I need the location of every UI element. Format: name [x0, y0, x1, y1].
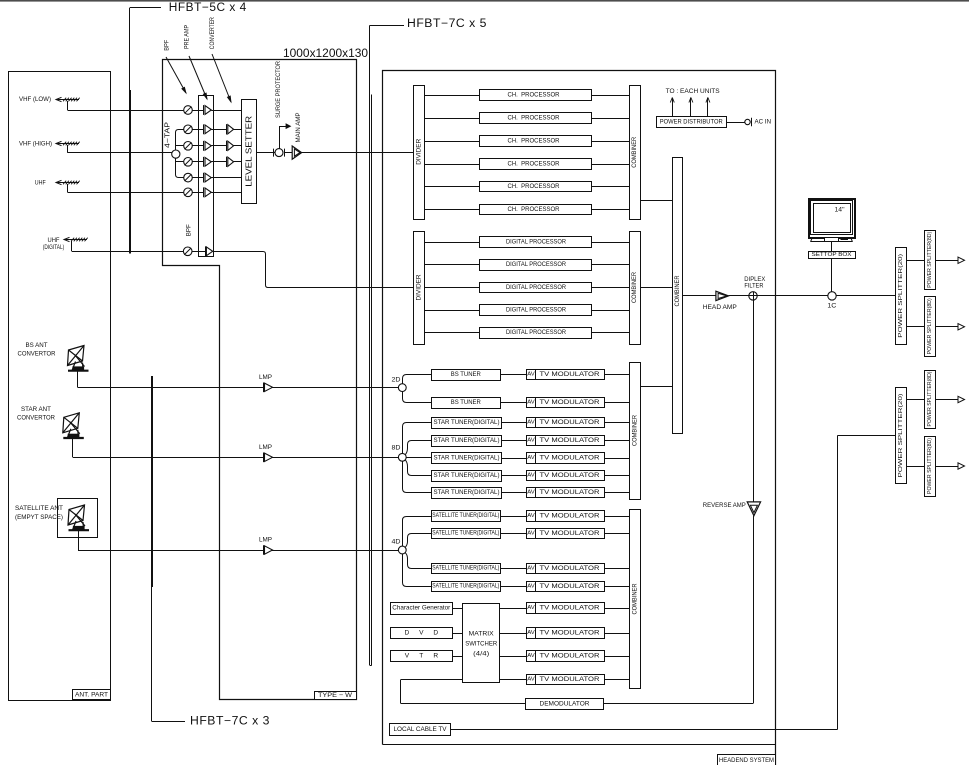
svg-text:COMBINER: COMBINER [674, 275, 681, 306]
svg-text:MATRIX: MATRIX [469, 631, 495, 638]
svg-text:UHF: UHF [35, 180, 46, 187]
svg-text:Character Generator: Character Generator [392, 605, 450, 612]
svg-text:TV MODULATOR: TV MODULATOR [540, 513, 601, 520]
svg-text:LMP: LMP [259, 444, 272, 451]
svg-text:HEAD AMP: HEAD AMP [703, 304, 737, 311]
svg-text:STAR TUNER(DIGITAL): STAR TUNER(DIGITAL) [434, 455, 500, 462]
svg-text:DIVIDER: DIVIDER [416, 138, 423, 165]
svg-text:(EMPYT SPACE): (EMPYT SPACE) [15, 514, 63, 521]
svg-text:POWER SPLITTER(8D): POWER SPLITTER(8D) [927, 298, 933, 354]
svg-text:4D: 4D [392, 538, 401, 545]
svg-text:TV MODULATOR: TV MODULATOR [540, 455, 601, 462]
svg-text:TV MODULATOR: TV MODULATOR [540, 583, 601, 590]
svg-text:TYPE − W: TYPE − W [318, 692, 352, 699]
svg-text:POWER SPLITTER(8D): POWER SPLITTER(8D) [927, 438, 933, 494]
svg-text:CH. PROCESSOR: CH. PROCESSOR [508, 92, 561, 99]
svg-text:STAR TUNER(DIGITAL): STAR TUNER(DIGITAL) [434, 437, 500, 444]
svg-text:REVERSE AMP: REVERSE AMP [703, 502, 746, 509]
svg-text:CH. PROCESSOR: CH. PROCESSOR [508, 138, 561, 145]
svg-text:AV: AV [527, 531, 535, 537]
svg-text:POWER SPLITTER(20): POWER SPLITTER(20) [898, 254, 904, 338]
svg-text:TV MODULATOR: TV MODULATOR [540, 472, 601, 479]
svg-text:CONVERTER: CONVERTER [209, 17, 216, 49]
svg-text:VHF (HIGH): VHF (HIGH) [19, 141, 52, 148]
svg-text:HFBT−7C x 5: HFBT−7C x 5 [407, 18, 487, 30]
svg-text:BS ANT: BS ANT [26, 342, 48, 349]
svg-text:AV: AV [527, 473, 535, 479]
svg-text:SWITCHER: SWITCHER [465, 641, 497, 648]
svg-text:POWER SPLITTER(8D): POWER SPLITTER(8D) [927, 231, 933, 287]
svg-text:8D: 8D [392, 445, 401, 452]
svg-text:TV MODULATOR: TV MODULATOR [540, 371, 601, 378]
svg-text:DIVIDER: DIVIDER [416, 274, 423, 301]
svg-text:STAR TUNER(DIGITAL): STAR TUNER(DIGITAL) [434, 489, 500, 496]
svg-text:1000x1200x130: 1000x1200x130 [283, 46, 368, 60]
svg-text:CH. PROCESSOR: CH. PROCESSOR [508, 206, 561, 213]
svg-text:TV MODULATOR: TV MODULATOR [540, 653, 601, 660]
svg-text:T: T [419, 653, 423, 660]
svg-text:AV: AV [527, 455, 535, 461]
svg-text:D: D [433, 630, 438, 637]
svg-text:BS TUNER: BS TUNER [451, 399, 481, 406]
svg-text:LOCAL CABLE TV: LOCAL CABLE TV [394, 726, 448, 733]
svg-text:DEMODULATOR: DEMODULATOR [540, 701, 591, 708]
svg-text:AV: AV [527, 566, 535, 572]
svg-text:V: V [419, 630, 424, 637]
svg-text:POWER SPLITTER(20): POWER SPLITTER(20) [898, 393, 904, 477]
svg-text:COMBINER: COMBINER [632, 415, 639, 446]
svg-text:SATELLITE TUNER(DIGITAL): SATELLITE TUNER(DIGITAL) [432, 584, 499, 590]
svg-text:2D: 2D [392, 376, 401, 383]
svg-text:POWER SPLITTER(8D): POWER SPLITTER(8D) [927, 371, 933, 426]
svg-text:ANT. PART: ANT. PART [75, 692, 108, 699]
svg-text:TV MODULATOR: TV MODULATOR [540, 530, 601, 537]
svg-text:AV: AV [527, 400, 535, 406]
svg-text:AV: AV [527, 372, 535, 378]
svg-text:TV MODULATOR: TV MODULATOR [540, 489, 601, 496]
svg-text:STAR TUNER(DIGITAL): STAR TUNER(DIGITAL) [434, 419, 500, 426]
svg-text:AV: AV [527, 513, 535, 519]
svg-text:AV: AV [527, 420, 535, 426]
svg-text:STAR TUNER(DIGITAL): STAR TUNER(DIGITAL) [434, 472, 500, 479]
svg-text:HFBT−7C x 3: HFBT−7C x 3 [190, 716, 270, 728]
svg-text:DIGITAL PROCESSOR: DIGITAL PROCESSOR [506, 239, 566, 246]
svg-text:CONVERTOR: CONVERTOR [17, 415, 55, 422]
svg-text:TV MODULATOR: TV MODULATOR [540, 565, 601, 572]
svg-text:CH. PROCESSOR: CH. PROCESSOR [508, 161, 561, 168]
svg-text:TO : EACH UNITS: TO : EACH UNITS [666, 88, 720, 95]
svg-text:CH. PROCESSOR: CH. PROCESSOR [508, 115, 561, 122]
svg-text:BS TUNER: BS TUNER [451, 371, 481, 378]
svg-text:TV MODULATOR: TV MODULATOR [540, 437, 601, 444]
svg-text:COMBINER: COMBINER [631, 136, 638, 167]
svg-text:MAIN AMP: MAIN AMP [295, 113, 302, 143]
svg-text:PRE AMP: PRE AMP [184, 25, 191, 49]
svg-text:4−TAP: 4−TAP [165, 122, 172, 148]
svg-text:SURGE PROTECTOR: SURGE PROTECTOR [275, 61, 282, 118]
svg-text:POWER DISTRIBUTOR: POWER DISTRIBUTOR [660, 119, 724, 126]
svg-text:FILTER: FILTER [744, 283, 763, 290]
svg-text:AV: AV [527, 630, 535, 636]
svg-text:1C: 1C [827, 303, 836, 310]
svg-text:SETTOP BOX: SETTOP BOX [812, 252, 852, 258]
svg-text:AV: AV [527, 653, 535, 659]
svg-text:VHF (LOW): VHF (LOW) [19, 96, 51, 103]
svg-text:LMP: LMP [259, 537, 272, 544]
svg-text:LMP: LMP [259, 374, 272, 381]
svg-text:TV MODULATOR: TV MODULATOR [540, 630, 601, 637]
svg-text:SATELLITE TUNER(DIGITAL): SATELLITE TUNER(DIGITAL) [432, 566, 499, 572]
svg-text:COMBINER: COMBINER [631, 272, 638, 303]
svg-text:V: V [405, 653, 410, 660]
svg-text:AV: AV [527, 584, 535, 590]
svg-text:DIGITAL PROCESSOR: DIGITAL PROCESSOR [506, 307, 566, 314]
svg-text:SATELLITE ANT: SATELLITE ANT [15, 505, 63, 512]
svg-text:DIGITAL PROCESSOR: DIGITAL PROCESSOR [506, 284, 566, 291]
svg-text:CONVERTOR: CONVERTOR [18, 351, 56, 358]
svg-text:DIGITAL PROCESSOR: DIGITAL PROCESSOR [506, 261, 566, 268]
svg-text:TV MODULATOR: TV MODULATOR [540, 676, 601, 683]
svg-text:AV: AV [527, 490, 535, 496]
svg-text:14": 14" [835, 206, 845, 213]
svg-text:TV MODULATOR: TV MODULATOR [540, 605, 601, 612]
svg-text:D: D [405, 630, 410, 637]
svg-text:COMBINER: COMBINER [632, 583, 639, 614]
svg-text:CH. PROCESSOR: CH. PROCESSOR [508, 183, 561, 190]
svg-text:(4/4): (4/4) [473, 651, 489, 658]
svg-text:AV: AV [527, 605, 535, 611]
svg-text:UHF: UHF [48, 237, 60, 244]
svg-text:R: R [433, 653, 438, 660]
svg-text:(DIGITAL): (DIGITAL) [43, 244, 65, 251]
svg-text:LEVEL SETTER: LEVEL SETTER [245, 115, 254, 186]
svg-text:DIGITAL PROCESSOR: DIGITAL PROCESSOR [506, 329, 566, 336]
svg-text:SATELLITE TUNER(DIGITAL): SATELLITE TUNER(DIGITAL) [432, 531, 499, 537]
svg-text:AV: AV [527, 677, 535, 683]
svg-text:STAR ANT: STAR ANT [21, 406, 51, 413]
svg-text:AV: AV [527, 438, 535, 444]
svg-text:TV MODULATOR: TV MODULATOR [540, 399, 601, 406]
svg-text:TV MODULATOR: TV MODULATOR [540, 419, 601, 426]
svg-text:AC IN: AC IN [755, 119, 772, 126]
svg-text:BPF: BPF [186, 224, 193, 236]
svg-text:HFBT−5C x 4: HFBT−5C x 4 [169, 2, 247, 14]
svg-text:BPF: BPF [164, 40, 171, 51]
svg-text:SATELLITE TUNER(DIGITAL): SATELLITE TUNER(DIGITAL) [432, 513, 499, 519]
svg-text:HEADEND SYSTEM: HEADEND SYSTEM [719, 757, 774, 764]
